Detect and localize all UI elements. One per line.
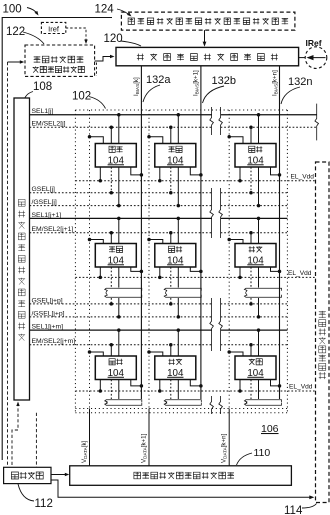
current source IRef (dashed circle with left arrow) <box>305 47 327 69</box>
wire EL stub P32 <box>159 380 161 392</box>
pixel P12 box 画素104 <box>155 144 196 168</box>
label text 電流ソース・シンクアドレスドライバ <box>128 18 288 24</box>
wire L-stub to IBIAS P21 <box>131 267 142 271</box>
display panel dashed border 102 <box>75 109 287 111</box>
wire L-stub to IBIAS P23 <box>271 267 280 271</box>
wire GSEL dashed stub P23 <box>250 267 252 288</box>
wire data hook P31 <box>90 352 104 356</box>
wire data hook P32 <box>149 352 163 356</box>
wire /GSEL stub P23 <box>258 267 260 288</box>
svg-text:110: 110 <box>254 447 271 459</box>
wire IBIAS col1 <box>140 66 142 399</box>
svg-text:IBIAS[k]: IBIAS[k] <box>133 77 140 96</box>
wire EM/SEL2[j+m] <box>30 344 212 346</box>
wire L-stub to IBIAS P22 <box>190 267 201 271</box>
svg-text:104: 104 <box>108 155 125 166</box>
control line C (panel to controller) <box>35 413 37 468</box>
break mark right edge row1 <box>315 104 319 141</box>
leader 120 <box>121 41 141 46</box>
svg-text:132n: 132n <box>288 76 312 88</box>
label text ソース（データ）ドライバ <box>134 472 234 479</box>
wire GSEL[j+p] <box>30 303 212 305</box>
wire EL stub P11 <box>99 167 101 181</box>
leader 122 <box>23 32 44 44</box>
wire /GSEL stub P12 <box>177 167 179 206</box>
wire EM stub P11 <box>110 127 112 143</box>
wire GSEL dashed stub P32 <box>170 380 172 400</box>
wire EL stub P33 <box>239 380 241 392</box>
wire SEL stub P21 <box>118 218 120 243</box>
wire data hook P11 <box>90 137 104 144</box>
wire SEL stub P33 <box>258 330 260 356</box>
wire EM stub P23 <box>250 233 252 244</box>
label text 画素 <box>109 246 123 252</box>
svg-text:VDATA[k+n]: VDATA[k+n] <box>221 433 228 463</box>
leader 102 <box>89 97 106 109</box>
label text 画素 <box>249 359 263 365</box>
break marks column gap <box>210 107 214 135</box>
svg-text:EL_Vdd: EL_Vdd <box>288 270 312 277</box>
label text ゲート（アドレス）ドライバ <box>18 199 25 340</box>
svg-text:VDATA[k+1]: VDATA[k+1] <box>141 433 148 463</box>
svg-text:EM/SEL2[j]: EM/SEL2[j] <box>32 121 66 128</box>
wire data hook P21 <box>90 240 104 244</box>
wire data hook P23 <box>229 240 243 244</box>
label text 画素 <box>169 246 183 252</box>
svg-text:132b: 132b <box>212 75 236 87</box>
wire SEL stub P12 <box>177 115 179 144</box>
wire IBIAS col3 <box>279 66 281 399</box>
wire SEL stub P32 <box>177 330 179 356</box>
svg-text:104: 104 <box>108 368 125 379</box>
current source/sink control means box U122 (dashed) <box>25 45 95 76</box>
svg-text:112: 112 <box>35 498 53 510</box>
wire /GSEL stub P31 <box>118 380 120 400</box>
svg-text:104: 104 <box>247 368 264 379</box>
svg-text:114: 114 <box>284 505 303 515</box>
pixel P33 box 画素104 <box>235 356 276 380</box>
wire data hook P22 <box>149 240 163 244</box>
wire GSEL dashed stub P22 <box>170 267 172 288</box>
wire /GSEL stub P22 <box>177 267 179 288</box>
svg-text:IRef: IRef <box>306 38 322 48</box>
svg-text:IBIAS[k+1]: IBIAS[k+1] <box>193 70 200 96</box>
svg-text:GSEL[j]: GSEL[j] <box>32 186 56 193</box>
wire GSEL dashed stub P31 <box>110 380 112 400</box>
wire controller to 114 box with arrow <box>51 480 311 497</box>
wire EM stub P21 <box>110 233 112 244</box>
wire data hook P12 <box>149 137 163 144</box>
leader 110 <box>237 453 253 465</box>
pixel P23 box 画素104 <box>235 244 276 268</box>
label text 画素 <box>249 246 263 252</box>
wire /GSEL[j] <box>30 205 212 207</box>
svg-text:SEL1[j+m]: SEL1[j+m] <box>32 324 64 331</box>
svg-text:104: 104 <box>247 155 264 166</box>
svg-text:104: 104 <box>167 155 184 166</box>
control line A (to control means) <box>7 62 9 467</box>
wire SEL stub P31 <box>118 330 120 356</box>
controller box U112 <box>4 467 51 483</box>
svg-text:IBIAS[k+n]: IBIAS[k+n] <box>271 70 278 96</box>
wire GSEL dashed stub P12 <box>170 167 172 193</box>
svg-text:100: 100 <box>3 4 22 16</box>
label text 画素 <box>109 146 123 152</box>
dashed link Iref box to control means <box>66 28 86 41</box>
wire /GSEL stub P32 <box>177 380 179 400</box>
panel bottom second dotted line <box>75 412 287 414</box>
EL_Vdd rail row2 <box>75 276 315 278</box>
svg-text:GSEL[j+p]: GSEL[j+p] <box>32 297 63 304</box>
wire /GSEL stub P13 <box>258 167 260 206</box>
wire EL stub P31 <box>99 380 101 392</box>
wire SEL stub P23 <box>258 218 260 243</box>
wire L-stub to IBIAS P33 <box>271 380 280 386</box>
wire EM/SEL2[j] <box>30 126 212 128</box>
wire EM stub P32 <box>170 345 172 356</box>
label text 画素 <box>109 359 123 365</box>
wire control means to source/sink circuit <box>95 57 111 62</box>
label text 画素 <box>169 146 183 152</box>
svg-text:EL_Vdd: EL_Vdd <box>289 384 313 391</box>
wire VDATA col3 <box>228 110 230 409</box>
wire EL stub P12 <box>159 167 161 181</box>
outer device border (100) <box>2 18 112 461</box>
svg-text:104: 104 <box>108 255 125 266</box>
leader 112 <box>18 484 34 501</box>
wire L-stub to IBIAS P11 <box>131 167 142 175</box>
wire data hook P33 <box>229 352 243 356</box>
wire EL stub P21 <box>99 267 101 277</box>
arrow into control means from controller line <box>8 61 22 63</box>
wire /GSEL stub P33 <box>258 380 260 400</box>
wire GSEL dashed stub P11 <box>110 167 112 193</box>
wire SEL stub P13 <box>258 115 260 144</box>
label text 画素 <box>249 146 263 152</box>
break brackets bottom <box>105 400 142 405</box>
leader 108 <box>25 92 33 98</box>
svg-text:104: 104 <box>247 255 264 266</box>
svg-text:EM/SEL2[j+m]: EM/SEL2[j+m] <box>32 338 76 345</box>
break brackets row gap <box>105 288 142 293</box>
wire EM/SEL2[j+1] <box>30 232 212 234</box>
wire SEL1[j+m] <box>30 329 212 331</box>
label text 制御装置 <box>11 472 43 479</box>
leader arrow 100 <box>27 8 38 15</box>
svg-text:SEL1[j+1]: SEL1[j+1] <box>32 212 62 219</box>
label text 電流ソース・ <box>34 56 84 63</box>
wire L-stub to IBIAS P31 <box>131 380 142 386</box>
wire /GSEL stub P21 <box>118 267 120 288</box>
svg-text:108: 108 <box>33 81 52 93</box>
wire EM stub P22 <box>170 233 172 244</box>
pixel P11 box 画素104 <box>95 144 136 168</box>
label text 電源供与制御手段 <box>319 311 326 379</box>
wire VDATA col2 <box>148 110 150 409</box>
svg-text:EL_Vdd: EL_Vdd <box>291 173 315 180</box>
svg-text:122: 122 <box>6 26 25 38</box>
svg-text:124: 124 <box>95 4 115 16</box>
source (data) driver box U110 <box>70 466 292 486</box>
wire L-stub to IBIAS P12 <box>190 167 201 175</box>
dashed stub near 120 <box>96 63 98 77</box>
label text 画素 <box>169 359 183 365</box>
svg-text:104: 104 <box>167 368 184 379</box>
wire EM stub P12 <box>170 127 172 143</box>
wire L-stub to IBIAS P13 <box>271 167 280 175</box>
svg-text:132a: 132a <box>146 74 171 86</box>
arrow from address driver to source/sink circuit <box>204 30 206 43</box>
wire EM stub P33 <box>250 345 252 356</box>
svg-text:VDATA[k]: VDATA[k] <box>81 440 88 463</box>
svg-text:104: 104 <box>167 255 184 266</box>
wire GSEL dashed stub P21 <box>110 267 112 288</box>
wire GSEL dashed stub P13 <box>250 167 252 193</box>
leader 114 <box>302 504 317 509</box>
wire GSEL dashed stub P33 <box>250 380 252 400</box>
EL_Vdd rail row3 <box>75 390 315 392</box>
Iref setting box (dashed) <box>41 22 65 33</box>
svg-text:/GSEL[j]: /GSEL[j] <box>32 199 57 206</box>
wire data hook P13 <box>229 137 243 144</box>
control line B (gate driver to controller) <box>16 402 19 407</box>
pixel P31 box 画素104 <box>95 356 136 380</box>
label text 電流ソース・シンク回路 <box>137 54 278 61</box>
wire SEL1[j+1] <box>30 217 212 219</box>
wire GSEL[j] <box>30 192 212 194</box>
svg-text:/GSEL[j+p]: /GSEL[j+p] <box>32 310 65 317</box>
wire SEL1[j] <box>30 114 212 116</box>
current source/sink address driver box U124 (dashed) <box>121 12 295 30</box>
wire IBIAS col2 <box>200 66 202 399</box>
svg-text:120: 120 <box>104 33 123 45</box>
wire EM stub P13 <box>250 127 252 143</box>
svg-text:EM/SEL2[j+1]: EM/SEL2[j+1] <box>32 226 74 233</box>
current source/sink circuit box U120 <box>116 47 299 65</box>
svg-text:102: 102 <box>72 91 91 103</box>
wire EL stub P22 <box>159 267 161 277</box>
wire EL stub P13 <box>239 167 241 181</box>
svg-text:106: 106 <box>261 423 279 435</box>
wire SEL stub P22 <box>177 218 179 243</box>
gate (address) driver box U108 <box>14 98 30 400</box>
svg-text:Iref: Iref <box>48 24 60 33</box>
wire SEL stub P11 <box>118 115 120 144</box>
pixel P22 box 画素104 <box>155 244 196 268</box>
pixel P13 box 画素104 <box>235 144 276 168</box>
wire VDATA col1 <box>89 110 91 409</box>
svg-text:SEL1[j]: SEL1[j] <box>32 108 54 115</box>
wire L-stub to IBIAS P32 <box>190 380 201 386</box>
wire /GSEL[j+p] <box>30 316 212 318</box>
wire /GSEL stub P11 <box>118 167 120 206</box>
arrow controller to source driver <box>51 474 67 476</box>
power supply control means box U114 (dashed) <box>316 162 330 503</box>
EL_Vdd rail row1 <box>75 180 315 182</box>
label text シンク制御手段 <box>33 66 85 72</box>
pixel P21 box 画素104 <box>95 244 136 268</box>
wire EM stub P31 <box>110 345 112 356</box>
wire EL stub P23 <box>239 267 241 277</box>
pixel P32 box 画素104 <box>155 356 196 380</box>
leader arrow 124 <box>117 9 130 16</box>
